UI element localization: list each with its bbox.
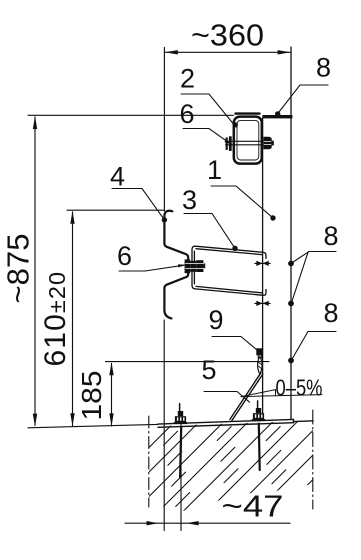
svg-text:2: 2 (180, 64, 195, 94)
svg-text:1: 1 (207, 155, 222, 185)
svg-text:8: 8 (323, 221, 338, 251)
svg-text:0–5%: 0–5% (276, 375, 323, 401)
svg-text:~360: ~360 (191, 19, 264, 53)
svg-text:8: 8 (316, 53, 331, 83)
svg-text:3: 3 (182, 185, 197, 215)
svg-text:8: 8 (323, 298, 338, 328)
svg-text:6: 6 (179, 99, 194, 129)
svg-text:6: 6 (117, 241, 132, 271)
svg-text:4: 4 (110, 162, 125, 192)
svg-text:610±20: 610±20 (39, 271, 72, 367)
svg-text:~875: ~875 (2, 234, 36, 304)
svg-text:~47: ~47 (222, 489, 284, 524)
svg-text:5: 5 (201, 355, 216, 385)
svg-text:185: 185 (76, 371, 107, 421)
svg-text:9: 9 (208, 305, 223, 335)
